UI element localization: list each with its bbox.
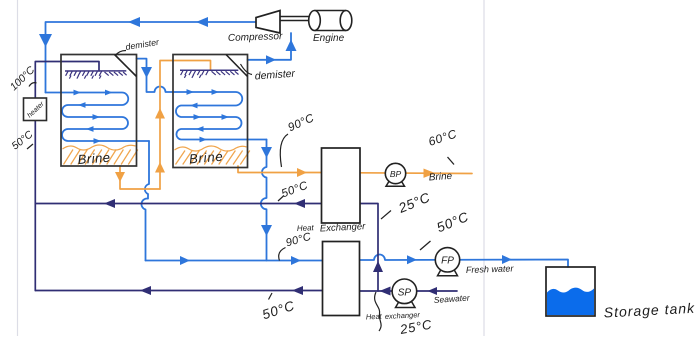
svg-text:Brine: Brine xyxy=(77,150,111,167)
svg-text:Fresh water: Fresh water xyxy=(466,263,515,275)
tick 50C left xyxy=(27,144,33,149)
arrow up to compressor xyxy=(286,40,297,52)
wire compressor to evaporator1 top xyxy=(46,22,257,93)
arrow left seawater inlet xyxy=(428,287,438,295)
evaporator 1 demister screen xyxy=(65,71,127,79)
arrow coil1 row1 a xyxy=(74,90,82,96)
wire seawater HX1 outlet line xyxy=(35,203,321,205)
svg-text:Brine: Brine xyxy=(188,149,224,167)
wire evaporator1 coil serpentine xyxy=(46,93,150,142)
tick 50C mid xyxy=(278,196,284,202)
arrow coil2 row3 b xyxy=(222,114,230,120)
wire brine riser to evap2 top xyxy=(160,61,211,190)
wire brine evap2 drain to HX1 xyxy=(238,166,322,173)
arrow right fresh water a xyxy=(180,256,190,265)
faint page guide line left xyxy=(17,0,19,336)
wire evaporator2 vapor to compressor xyxy=(248,33,292,60)
engine body xyxy=(309,11,352,31)
arrow left HX1 out a xyxy=(104,199,115,208)
arrow down between evaporators xyxy=(141,67,152,78)
brine pool evap1 hatch xyxy=(63,145,138,165)
arrow left HX2 out a xyxy=(140,286,151,295)
heat exchanger 2 xyxy=(323,242,360,316)
wire seawater HX1 right to SP junction xyxy=(360,204,378,292)
svg-text:Brine: Brine xyxy=(428,171,452,184)
arrow up brine riser b xyxy=(155,108,165,119)
wire seawater inlet xyxy=(416,290,458,292)
tick 100C xyxy=(29,83,37,87)
arrow coil2 row2 xyxy=(190,103,198,109)
evaporator 2 demister screen xyxy=(180,70,239,78)
svg-text:Compressor: Compressor xyxy=(228,31,283,44)
compressor xyxy=(256,11,280,34)
engine shaft xyxy=(280,16,311,18)
leader demister 1 xyxy=(116,51,127,56)
arrow up SP riser xyxy=(373,261,383,272)
svg-text:SP: SP xyxy=(398,287,412,298)
wire condensate evap1 down xyxy=(141,141,149,261)
arrow right evap2 to compressor riser xyxy=(266,55,276,64)
storage tank xyxy=(546,267,595,316)
arrow down condensate2 lower xyxy=(261,225,272,236)
pump SP xyxy=(392,279,417,308)
arrow right fresh water d xyxy=(502,255,512,264)
wire fresh water line HX2 to storage tank xyxy=(360,255,569,268)
arrow right fresh water c xyxy=(407,255,417,264)
wire fresh water line to HX2 xyxy=(146,260,323,262)
heater box xyxy=(24,98,47,121)
svg-text:BP: BP xyxy=(390,169,402,179)
arrow down brine drain1 xyxy=(115,172,125,182)
arrow coil1 row3 xyxy=(93,114,101,120)
arrow coil2 row1 a xyxy=(187,89,195,95)
wire condensate evap2 down to heat exchanger2 line xyxy=(261,140,267,261)
tick 50C right xyxy=(420,241,431,250)
arrow coil2 row5 xyxy=(200,137,208,143)
arrow right brine outlet xyxy=(424,169,436,178)
tick 60C xyxy=(448,157,455,165)
arrow coil2 row1 b xyxy=(212,89,220,95)
arrow left on top line 2 xyxy=(196,17,208,27)
leader demister 2 xyxy=(241,64,253,75)
arrow left HX1 out b xyxy=(294,199,305,208)
leader 90C lower xyxy=(279,248,286,261)
faint page guide line right xyxy=(483,0,485,336)
wire evaporator2 coil serpentine xyxy=(173,92,267,140)
wire seawater heated main left riser + evap1 feed xyxy=(35,62,99,291)
pump FP xyxy=(435,248,459,276)
arrow left HX2 out b xyxy=(292,286,303,295)
wire brine HX1 to outlet xyxy=(360,172,472,175)
evaporator 2 demister diagonal xyxy=(226,55,248,77)
leader 90C upper xyxy=(280,134,288,167)
arrow left on top line 1 xyxy=(128,17,140,27)
arrow right brine to HX1 xyxy=(297,168,307,177)
svg-text:Engine: Engine xyxy=(313,33,345,44)
evaporator 1 demister diagonal xyxy=(115,55,137,77)
arrow down on left drop xyxy=(39,34,52,47)
arrow coil2 row4 xyxy=(196,126,204,132)
wire evaporator1 vapor out to evaporator2 coil xyxy=(137,59,174,92)
evaporator 1 vessel xyxy=(61,55,137,167)
arrow coil2 row3 a xyxy=(194,114,202,120)
pump BP xyxy=(385,163,405,186)
wire brine evap1 drain xyxy=(120,166,160,189)
brine pool evap2 hatch xyxy=(175,146,250,165)
svg-text:FP: FP xyxy=(441,256,454,267)
arrow up brine riser a xyxy=(155,162,165,173)
tick 50C bottom xyxy=(269,293,273,300)
arrow right fresh water b xyxy=(291,256,301,265)
arrow coil1 row4 xyxy=(86,126,94,132)
heat exchanger 1 xyxy=(322,148,361,223)
arrow down condensate2 upper xyxy=(261,147,272,158)
leader 25C bottom xyxy=(375,292,382,331)
storage tank water xyxy=(547,288,594,315)
evaporator 2 vessel xyxy=(173,55,248,168)
arrow left into SP xyxy=(380,287,391,296)
arrow coil1 row1 b xyxy=(105,90,113,96)
wire seawater HX2 line xyxy=(35,290,322,292)
arrow coil1 row5 xyxy=(94,138,102,144)
arrow coil1 row2 xyxy=(78,102,86,108)
tick 25C upper xyxy=(381,211,391,220)
wire seawater SP to HX2 xyxy=(360,290,394,292)
